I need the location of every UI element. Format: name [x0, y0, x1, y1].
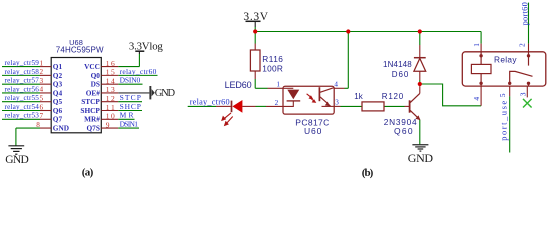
svg-text:3: 3: [40, 77, 44, 85]
svg-text:8: 8: [36, 121, 40, 129]
svg-text:6: 6: [40, 103, 44, 111]
svg-text:3: 3: [518, 92, 527, 96]
svg-text:2: 2: [275, 99, 279, 107]
svg-text:5: 5: [498, 93, 507, 97]
svg-text:Relay: Relay: [494, 54, 517, 64]
svg-text:relay_ctr56: relay_ctr56: [5, 85, 40, 93]
svg-text:Q6: Q6: [53, 106, 63, 115]
svg-text:7: 7: [40, 112, 44, 120]
svg-text:SHCP: SHCP: [120, 102, 141, 111]
svg-text:LED60: LED60: [225, 80, 252, 90]
svg-text:Q5: Q5: [53, 97, 63, 106]
svg-text:3: 3: [335, 99, 339, 107]
svg-text:OE#: OE#: [86, 88, 101, 97]
svg-text:GND: GND: [155, 88, 176, 99]
svg-text:MR: MR: [120, 111, 134, 120]
svg-text:port_use: port_use: [498, 101, 508, 141]
svg-text:relay_ctr54: relay_ctr54: [5, 103, 40, 111]
svg-text:1N4148: 1N4148: [383, 60, 412, 69]
svg-text:15: 15: [106, 68, 115, 77]
svg-text:(b): (b): [362, 167, 374, 179]
svg-text:MR#: MR#: [84, 115, 100, 124]
svg-text:relay_ctr60: relay_ctr60: [120, 67, 157, 76]
svg-text:2: 2: [518, 43, 527, 47]
svg-text:GND: GND: [408, 151, 434, 165]
svg-text:1: 1: [472, 43, 481, 47]
svg-text:5: 5: [40, 95, 44, 103]
svg-text:GND: GND: [5, 154, 29, 166]
svg-text:2: 2: [40, 68, 44, 76]
svg-text:STCP: STCP: [81, 97, 100, 106]
svg-text:100R: 100R: [262, 64, 283, 74]
svg-text:STCP: STCP: [120, 93, 141, 102]
svg-text:1k: 1k: [354, 92, 364, 101]
svg-text:relay_ctr59: relay_ctr59: [5, 59, 40, 67]
svg-text:74HC595PW: 74HC595PW: [56, 46, 104, 55]
svg-text:relay_ctr53: relay_ctr53: [5, 112, 40, 120]
svg-text:16: 16: [106, 59, 115, 68]
svg-text:VCC: VCC: [84, 62, 100, 71]
svg-text:Q7: Q7: [53, 115, 63, 124]
svg-text:Q7S: Q7S: [87, 123, 100, 132]
svg-text:4: 4: [40, 86, 44, 94]
svg-text:4: 4: [472, 97, 481, 101]
svg-text:11: 11: [106, 103, 115, 112]
svg-text:D60: D60: [392, 70, 409, 79]
svg-text:Q2: Q2: [53, 71, 63, 80]
svg-text:Q0: Q0: [91, 71, 101, 80]
svg-text:10: 10: [106, 112, 115, 121]
svg-text:R120: R120: [382, 92, 404, 101]
svg-text:Q3: Q3: [53, 80, 63, 89]
svg-text:1: 1: [276, 81, 280, 89]
svg-text:port60: port60: [520, 2, 530, 25]
svg-text:R116: R116: [262, 54, 283, 64]
svg-text:Q1: Q1: [53, 62, 63, 71]
svg-text:relay_ctr55: relay_ctr55: [5, 94, 40, 102]
svg-text:relay_ctr58: relay_ctr58: [5, 68, 40, 76]
svg-text:4: 4: [334, 81, 338, 89]
svg-text:12: 12: [106, 94, 115, 103]
svg-text:DSIN1: DSIN1: [120, 119, 139, 128]
svg-text:relay_ctr60: relay_ctr60: [190, 98, 230, 107]
svg-text:DS: DS: [91, 80, 100, 89]
svg-text:9: 9: [106, 120, 110, 129]
svg-text:DSIN0: DSIN0: [120, 76, 141, 85]
svg-text:SHCP: SHCP: [80, 106, 100, 115]
svg-text:U60: U60: [304, 126, 322, 136]
svg-text:14: 14: [106, 76, 115, 85]
svg-text:Q60: Q60: [394, 126, 413, 136]
svg-text:relay_ctr57: relay_ctr57: [5, 77, 40, 85]
svg-text:(a): (a): [82, 167, 94, 179]
svg-text:3.3Vlog: 3.3Vlog: [129, 41, 163, 53]
svg-text:1: 1: [40, 59, 44, 67]
svg-text:GND: GND: [53, 123, 69, 132]
svg-text:Q4: Q4: [53, 88, 63, 97]
